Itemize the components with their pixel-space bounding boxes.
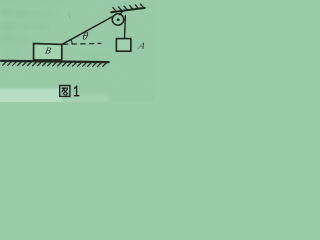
block B [34,44,62,61]
ground [1,61,109,62]
pulley link [120,10,125,15]
ceiling hatching [113,4,144,11]
dashed reference line [63,42,101,45]
pulley U1 [112,14,123,25]
ground hatching [3,61,107,67]
stray faint mark [69,12,71,19]
pulley axle dot [117,18,120,21]
block A [116,39,130,52]
paper background [0,0,155,102]
rope B to pulley [62,16,113,44]
paper grain [0,0,155,102]
angle arc [71,40,72,45]
rope pulley to A [124,15,127,38]
ceiling [111,8,145,12]
caption: hanzi tu (figure) [60,86,70,97]
caption: digit 1 [75,86,79,96]
